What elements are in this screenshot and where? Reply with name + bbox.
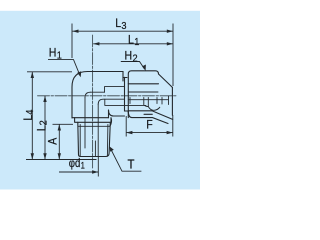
L2 dimension line	[44, 96, 46, 160]
svg-text:H1: H1	[49, 47, 63, 62]
svg-text:L4: L4	[22, 109, 36, 120]
svg-text:L3: L3	[115, 18, 127, 33]
F right extension	[172, 115, 174, 137]
svg-text:A: A	[47, 137, 60, 144]
cap cone top	[159, 74, 173, 87]
hex band	[75, 118, 112, 127]
body outline	[72, 72, 127, 119]
ext thread bottom	[26, 159, 97, 161]
L1 dimension line	[93, 43, 173, 45]
sleeve section lines	[130, 98, 162, 107]
bore corner arc	[85, 92, 91, 97]
thread root right	[106, 125, 109, 156]
ext hex top	[53, 123, 74, 125]
phi-d1 dimension line	[59, 171, 98, 173]
nut section bottom	[128, 111, 168, 124]
cap inner step	[128, 96, 168, 105]
ext top of body	[27, 71, 72, 73]
L3 dimension line	[72, 30, 173, 32]
L4 dimension line	[31, 72, 33, 160]
bore top line	[91, 91, 105, 93]
cap end face	[171, 87, 173, 115]
T leader	[111, 149, 142, 172]
svg-text:H2: H2	[125, 50, 138, 65]
right extension	[172, 24, 174, 87]
thread root left	[79, 125, 81, 156]
nut top	[128, 71, 158, 112]
A dimension line	[58, 124, 60, 159]
F left extension	[125, 116, 127, 137]
phi-d1 extension	[97, 157, 99, 177]
svg-text:φd1: φd1	[69, 157, 85, 171]
svg-text:L1: L1	[128, 34, 140, 49]
svg-text:F: F	[146, 119, 153, 132]
centerline vertical	[92, 35, 94, 168]
counterbore bottom	[105, 99, 146, 105]
svg-text:L2: L2	[36, 120, 50, 131]
dimension lines	[26, 24, 173, 177]
H1 leader	[48, 60, 80, 75]
leg right edge	[108, 110, 110, 118]
bore bottom arc	[98, 99, 124, 104]
thread outer	[78, 122, 111, 156]
F dimension line	[126, 132, 173, 134]
collet cup	[145, 106, 160, 111]
bore right line	[97, 104, 99, 156]
leg bottom fillet	[109, 110, 125, 116]
L3 left extension	[71, 24, 73, 59]
H2 leader	[121, 62, 145, 70]
nut facet bottom	[128, 111, 172, 120]
counterbore step	[105, 87, 125, 93]
nut bore top line	[128, 91, 158, 93]
svg-text:T: T	[128, 157, 135, 172]
neck groove bottom	[123, 77, 128, 117]
nut facet top	[128, 83, 158, 85]
bore left line	[85, 97, 95, 156]
leg bottom edge	[72, 117, 109, 119]
centerline horizontal	[38, 95, 177, 97]
thread top	[78, 125, 110, 127]
blue panel	[0, 11, 200, 190]
